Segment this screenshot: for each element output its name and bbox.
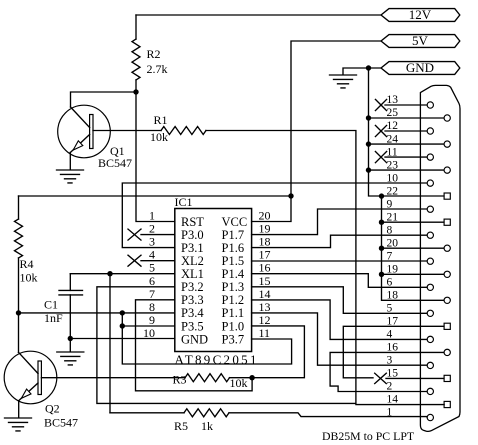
wire 12V rail [136, 14, 381, 16]
resistor R2 [132, 15, 168, 92]
junction C1/IC GND pin [68, 336, 73, 341]
resistor R3 [173, 373, 248, 391]
svg-text:P3.1: P3.1 [181, 241, 204, 255]
svg-text:P3.5: P3.5 [181, 319, 204, 333]
wire P1.4 to LPT pin 6 [252, 274, 427, 288]
svg-text:3: 3 [387, 355, 393, 367]
svg-text:22: 22 [387, 185, 399, 197]
svg-text:P3.3: P3.3 [181, 293, 204, 307]
svg-text:R3: R3 [173, 373, 187, 387]
wire GND stub pin 24 [369, 143, 444, 145]
svg-text:18: 18 [259, 235, 271, 249]
resistor R5 [110, 409, 229, 433]
svg-text:P3.0: P3.0 [181, 228, 204, 242]
svg-text:DB25M to PC LPT: DB25M to PC LPT [322, 429, 415, 443]
svg-text:23: 23 [387, 159, 399, 171]
svg-text:RST: RST [181, 215, 204, 229]
svg-text:12: 12 [259, 313, 271, 327]
svg-text:IC1: IC1 [175, 195, 193, 209]
svg-text:P1.5: P1.5 [222, 254, 245, 268]
svg-text:6: 6 [387, 277, 393, 289]
svg-text:10k: 10k [20, 271, 38, 285]
svg-text:2.7k: 2.7k [147, 62, 168, 76]
junction GND pin 23 [366, 167, 371, 172]
svg-text:16: 16 [259, 261, 271, 275]
svg-text:GND: GND [406, 60, 434, 75]
junction P3.5 tie [120, 323, 125, 328]
junction GND pin 21 [379, 220, 384, 225]
wire node to P1.0 [252, 326, 305, 378]
svg-text:1: 1 [387, 407, 393, 419]
resistor R1 [150, 113, 206, 144]
wire LPT pin 17 net [343, 326, 444, 378]
ground under Q1 [57, 170, 84, 183]
svg-text:11: 11 [259, 326, 271, 340]
connector J1 DB25M body [420, 85, 460, 431]
wire GND stub pin 20 [382, 247, 444, 249]
IC1 right pin names [222, 215, 248, 346]
svg-text:15: 15 [259, 274, 271, 288]
svg-text:10: 10 [387, 172, 399, 184]
wire node to P3.3 [136, 300, 253, 391]
junction GND pin 20 [379, 246, 384, 251]
svg-text:13: 13 [259, 300, 271, 314]
wire Q1 base [93, 130, 161, 132]
junction R2/Q1 collector/RST [133, 89, 138, 94]
no-connect X LPT pin 15 [375, 373, 387, 383]
wire GND flag lead [343, 68, 381, 75]
svg-text:7: 7 [149, 287, 155, 301]
svg-text:P1.6: P1.6 [222, 241, 245, 255]
svg-text:15: 15 [387, 368, 399, 380]
wire R5 to LPT pin 1 [229, 413, 427, 417]
wire stub LPT pin 11 (n.c.) [385, 156, 427, 158]
svg-text:P1.4: P1.4 [222, 267, 245, 281]
svg-text:8: 8 [149, 300, 155, 314]
svg-text:10k: 10k [150, 130, 168, 144]
no-connect X LPT pin 11 [375, 152, 386, 163]
svg-text:16: 16 [387, 342, 399, 354]
junction GND pin 25 [366, 115, 371, 120]
svg-text:R5: R5 [174, 419, 188, 433]
wire P3.1 to LPT pin 10 [122, 183, 427, 248]
svg-text:24: 24 [387, 133, 399, 145]
junction GND pin 24 [366, 141, 371, 146]
svg-text:XL1: XL1 [181, 267, 204, 281]
svg-text:4: 4 [387, 329, 393, 341]
DB25 pin contacts and numbers [387, 94, 451, 420]
wire XL1 net [70, 273, 175, 275]
no-connect X on P3.0 [128, 229, 141, 240]
svg-text:5: 5 [387, 303, 393, 315]
svg-text:GND: GND [181, 332, 208, 346]
svg-text:C1: C1 [44, 298, 58, 312]
capacitor C1 [44, 274, 83, 339]
wire P1.6 to LPT pin 8 [252, 235, 427, 247]
wire R3 to node [230, 377, 253, 379]
ground under C1 [57, 352, 84, 365]
svg-text:1nF: 1nF [44, 311, 63, 325]
svg-text:P1.2: P1.2 [222, 293, 245, 307]
wire P3.5 stub [122, 325, 175, 327]
svg-text:4: 4 [149, 248, 155, 262]
wire stub LPT pin 15 (n.c.) [386, 377, 444, 379]
wire GND bus upper [369, 68, 444, 196]
svg-text:2: 2 [387, 381, 393, 393]
junction GND pin 19 [379, 272, 384, 277]
wire P1.7 to LPT pin 9 [252, 209, 427, 235]
wire 5V rail [291, 41, 381, 196]
svg-text:P1.0: P1.0 [222, 319, 245, 333]
junction GND pin 22 [379, 193, 384, 198]
junction XL1/C1/R5 [107, 271, 112, 276]
svg-text:2: 2 [149, 222, 155, 236]
wire P3.0 stub (n.c.) [141, 234, 175, 236]
wire P3.4 net [19, 312, 175, 314]
wire R1 to LPT pin 14 [206, 131, 444, 405]
svg-text:19: 19 [259, 222, 271, 236]
wire GND stub pin 21 [382, 221, 444, 223]
IC1 right pin numbers 20-11 [259, 209, 271, 341]
svg-text:5V: 5V [412, 33, 429, 48]
wire GND stub pin 25 [369, 117, 444, 119]
svg-text:3: 3 [149, 235, 155, 249]
wire Q2 base [41, 377, 185, 379]
wire stub LPT pin 12 (n.c.) [385, 130, 427, 132]
svg-text:25: 25 [387, 107, 399, 119]
svg-text:P1.3: P1.3 [222, 280, 245, 294]
svg-text:9: 9 [149, 313, 155, 327]
svg-text:20: 20 [387, 237, 399, 249]
svg-text:17: 17 [259, 248, 271, 262]
svg-text:5: 5 [149, 261, 155, 275]
wire stub LPT pin 13 (n.c.) [385, 104, 427, 106]
svg-text:9: 9 [387, 198, 393, 210]
svg-text:1: 1 [149, 209, 155, 223]
no-connect X LPT pin 13 [375, 99, 386, 110]
svg-text:7: 7 [387, 250, 393, 262]
wire P1.5 to LPT pin 7 [252, 260, 427, 262]
svg-text:VCC: VCC [222, 215, 248, 229]
power flag 5V [381, 33, 460, 48]
svg-text:XL2: XL2 [181, 254, 204, 268]
wire Q1 collector [71, 92, 137, 107]
wire IC GND pin 10 [70, 338, 175, 340]
wire LPT pin 16 to pin 2 net [330, 352, 444, 391]
ground under Q2 [5, 418, 32, 431]
svg-text:R4: R4 [20, 257, 34, 271]
resistor R4 [15, 196, 38, 313]
junction 5V/VCC/R4 [288, 193, 293, 198]
svg-text:P3.4: P3.4 [181, 306, 204, 320]
svg-text:8: 8 [387, 224, 393, 236]
svg-text:1k: 1k [201, 419, 213, 433]
svg-text:6: 6 [149, 274, 155, 288]
wire to ground under C1 [69, 339, 71, 352]
svg-text:P3.7: P3.7 [222, 332, 245, 346]
power flag GND [381, 60, 460, 75]
junction R3/P1.0/P3.3 [249, 375, 254, 380]
svg-text:13: 13 [387, 94, 399, 106]
svg-text:17: 17 [387, 316, 399, 328]
wire GND stub pin 19 [382, 273, 444, 275]
no-connect X on XL2 [128, 255, 141, 266]
wire P1.3 to LPT pin 5 [252, 287, 427, 314]
wire P3.4/P3.5/P3.7 tie [122, 313, 291, 364]
wire Q2 collector [18, 313, 20, 352]
wire GND bus lower [382, 196, 444, 300]
svg-text:AT89C2051: AT89C2051 [175, 352, 259, 367]
wire R4 top to 5V [19, 195, 292, 197]
svg-text:14: 14 [387, 394, 399, 406]
wire P1.1 to LPT pin 3 [252, 313, 427, 365]
wire XL2 stub (n.c.) [141, 260, 175, 262]
IC1 left pin names [181, 215, 208, 346]
wire P1.2 to LPT pin 4 [252, 300, 427, 340]
wire RST net [136, 92, 175, 222]
svg-text:12V: 12V [409, 7, 432, 22]
svg-text:P1.1: P1.1 [222, 306, 245, 320]
svg-text:BC547: BC547 [98, 156, 132, 170]
wire VCC pin20 [252, 196, 291, 222]
svg-text:R1: R1 [154, 113, 168, 127]
svg-text:P1.7: P1.7 [222, 228, 245, 242]
svg-text:BC547: BC547 [44, 416, 78, 430]
svg-text:18: 18 [387, 290, 399, 302]
svg-text:19: 19 [387, 264, 399, 276]
ground symbol near GND flag [330, 75, 357, 88]
svg-text:11: 11 [387, 146, 398, 158]
no-connect X LPT pin 12 [375, 125, 386, 136]
svg-text:R2: R2 [147, 47, 161, 61]
svg-text:21: 21 [387, 211, 399, 223]
svg-text:14: 14 [259, 287, 271, 301]
svg-text:12: 12 [387, 120, 399, 132]
junction GND flag [366, 65, 371, 70]
transistor Q2 [4, 351, 78, 429]
junction R4/P3.4/Q2 collector [16, 310, 21, 315]
svg-text:20: 20 [259, 209, 271, 223]
svg-text:Q2: Q2 [45, 402, 60, 416]
wire XL1 to R5 [109, 274, 111, 413]
IC1 left pin numbers 1-10 [143, 209, 155, 341]
wire P3.2 joins R1/pin14 line [97, 287, 356, 404]
power flag 12V [381, 7, 460, 22]
svg-text:P3.2: P3.2 [181, 280, 204, 294]
wire GND stub pin 23 [369, 169, 444, 171]
op-amp U1 IC1 AT89C2051 body [175, 195, 259, 367]
transistor Q1 [58, 105, 132, 170]
svg-text:10: 10 [143, 326, 155, 340]
junction P3.4 tie [120, 310, 125, 315]
